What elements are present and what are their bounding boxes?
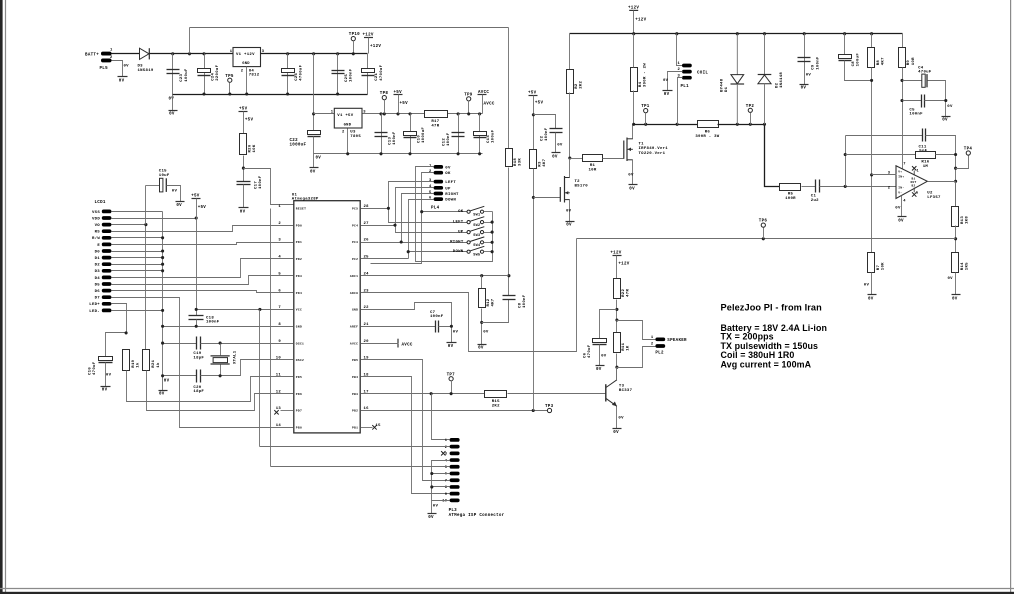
- svg-text:AREF: AREF: [350, 325, 358, 328]
- svg-text:0V: 0V: [801, 87, 807, 91]
- switch SW4 RIGHT: [467, 241, 470, 244]
- sheet border left: [0, 0, 3, 594]
- svg-text:0V: 0V: [948, 277, 954, 281]
- junction VO C15: [144, 223, 147, 226]
- wire MCU pin7 VCC: [197, 309, 294, 311]
- connector PL1 COIL: [682, 64, 692, 68]
- svg-text:D7: D7: [95, 297, 101, 301]
- svg-text:PL5: PL5: [100, 67, 109, 71]
- power symbol +12V: [364, 37, 373, 39]
- svg-text:SW5: SW5: [473, 254, 480, 258]
- wire C16 bottom: [105, 363, 107, 387]
- svg-text:C7: C7: [430, 311, 436, 315]
- junction +12V sym tx: [632, 32, 635, 35]
- junction reset node: [242, 167, 245, 170]
- svg-text:33K: 33K: [519, 158, 523, 166]
- wire C2 gnd: [555, 133, 557, 153]
- svg-text:V1 +5V: V1 +5V: [337, 114, 353, 118]
- svg-text:4700uF: 4700uF: [300, 64, 304, 80]
- svg-text:4K7: 4K7: [543, 158, 547, 166]
- junction crystal top: [219, 342, 222, 345]
- junction coil feed: [675, 32, 678, 35]
- wire LCD D6 to MCU pin6: [112, 291, 294, 293]
- wire C18 bottom stub: [196, 320, 198, 327]
- transistor T1 IRF840: [623, 141, 625, 159]
- svg-text:C8: C8: [519, 302, 523, 308]
- wire opamp in+ link: [872, 174, 897, 176]
- svg-text:1: 1: [230, 50, 233, 54]
- svg-text:18pF: 18pF: [193, 357, 204, 361]
- svg-text:0V: 0V: [119, 79, 125, 83]
- op-amp U2 LF357: [896, 166, 927, 199]
- svg-text:TP8: TP8: [380, 92, 389, 96]
- wire ISP pin2 VCC: [260, 446, 450, 448]
- junction 0V bus LEFT: [491, 221, 494, 224]
- junction C26: [286, 52, 289, 55]
- svg-text:R5: R5: [788, 193, 794, 197]
- junction TP10: [352, 52, 355, 55]
- junction rail U4: [245, 92, 248, 95]
- ground ISP: [428, 513, 437, 515]
- ground R14: [952, 294, 961, 296]
- svg-text:0V: 0V: [952, 297, 958, 301]
- wire R1 left: [570, 158, 583, 160]
- svg-text:OSC1: OSC1: [296, 342, 304, 345]
- svg-text:PB5: PB5: [352, 359, 358, 362]
- svg-text:AVCC: AVCC: [402, 343, 413, 347]
- wire +12V audio drop: [616, 256, 618, 279]
- svg-text:0V: 0V: [169, 98, 175, 102]
- wire R3 to TX drive: [533, 169, 535, 411]
- wire TP9 stub: [468, 101, 470, 114]
- svg-text:OK: OK: [458, 210, 464, 214]
- svg-text:GND: GND: [344, 124, 352, 128]
- junction R16 out: [954, 153, 957, 156]
- svg-text:100uF: 100uF: [185, 68, 189, 82]
- wire PL5 pin1 to D3: [112, 53, 140, 55]
- svg-text:7805: 7805: [350, 135, 361, 139]
- junction C18 pin8: [195, 325, 198, 328]
- svg-text:390R - 2W: 390R - 2W: [644, 63, 648, 87]
- wire R18 bottom: [508, 168, 510, 296]
- svg-text:100nF: 100nF: [350, 68, 354, 82]
- svg-text:D0: D0: [95, 250, 101, 254]
- junction U3 input: [312, 112, 315, 115]
- svg-text:DOWN: DOWN: [453, 250, 464, 254]
- ground T3: [613, 428, 622, 430]
- ground PL5: [118, 76, 128, 78]
- wire coil feed: [677, 34, 683, 66]
- svg-text:R1: R1: [590, 164, 596, 168]
- svg-text:2: 2: [110, 56, 113, 60]
- wire OK extension: [371, 212, 422, 264]
- svg-text:+12V: +12V: [635, 18, 646, 22]
- wire C8a top: [844, 34, 846, 55]
- ground 7805 rail: [310, 167, 319, 169]
- wire T2 gate link: [534, 197, 561, 199]
- svg-text:C10: C10: [418, 135, 422, 143]
- svg-text:0V: 0V: [628, 174, 634, 178]
- svg-text:0V: 0V: [433, 505, 439, 509]
- svg-text:C21: C21: [375, 72, 379, 80]
- svg-text:R9: R9: [907, 60, 911, 66]
- svg-text:BATT+: BATT+: [85, 53, 99, 57]
- svg-text:100R: 100R: [785, 197, 796, 201]
- svg-text:0V: 0V: [124, 65, 130, 69]
- svg-text:0V: 0V: [942, 119, 948, 123]
- sheet border right: [1010, 0, 1012, 594]
- wire rail ground drop: [172, 95, 174, 111]
- wire T3 emitter: [616, 407, 618, 429]
- power symbol +12V audio: [613, 255, 622, 257]
- svg-text:9: 9: [445, 493, 448, 497]
- resistor R4 390R 2W: [631, 68, 638, 92]
- svg-text:PC2: PC2: [352, 258, 358, 261]
- capacitor C19 18pF: [196, 337, 198, 350]
- junction rail C25: [336, 92, 339, 95]
- junction rail U3 gnd: [346, 152, 349, 155]
- svg-text:4700uF: 4700uF: [380, 64, 384, 80]
- resistor R8 4K7: [868, 48, 875, 68]
- wire PL4 DOWN to switch: [409, 200, 468, 252]
- junction pin26: [400, 240, 403, 243]
- svg-text:100nF: 100nF: [545, 127, 549, 141]
- wire C6 gnd: [599, 345, 601, 366]
- svg-text:C23: C23: [180, 73, 184, 81]
- regulator U4 7812: [233, 48, 261, 67]
- svg-text:LCD1: LCD1: [95, 201, 106, 205]
- wire reset vertical: [270, 209, 272, 467]
- resistor R17 47R: [425, 111, 448, 118]
- svg-text:D2: D2: [776, 82, 780, 88]
- svg-text:R17: R17: [431, 120, 439, 124]
- svg-text:UP: UP: [458, 230, 464, 234]
- ground coil shield: [663, 90, 673, 92]
- resistor R6 390R 3W: [698, 121, 719, 128]
- junction R8 top: [870, 32, 873, 35]
- wire R4 bottom: [633, 91, 635, 125]
- svg-text:7812: 7812: [249, 74, 260, 78]
- svg-text:V-: V-: [898, 192, 902, 195]
- wire MCU pin20 avcc: [361, 343, 399, 345]
- switch SW3 UP: [467, 231, 470, 234]
- svg-text:PD2: PD2: [296, 258, 302, 261]
- wire TP2 stub: [750, 113, 752, 125]
- svg-text:R18: R18: [514, 158, 518, 166]
- svg-text:1K5: 1K5: [965, 262, 969, 270]
- svg-text:TP10: TP10: [349, 33, 360, 37]
- power symbol AVCC pin20: [397, 339, 399, 348]
- svg-text:0V: 0V: [164, 380, 170, 384]
- no-connect ISP pin3: [441, 451, 445, 455]
- svg-text:R11: R11: [622, 342, 626, 350]
- svg-text:100nF: 100nF: [523, 294, 527, 308]
- wire C15 right: [167, 186, 181, 202]
- capacitor C22 1000uF: [308, 131, 321, 135]
- svg-text:100nF: 100nF: [430, 315, 444, 319]
- wire SW1 to 0V bus: [484, 211, 493, 213]
- wire +12V symbol drop: [368, 38, 370, 54]
- svg-text:DOWN: DOWN: [445, 199, 456, 203]
- svg-text:100nF: 100nF: [909, 113, 923, 117]
- svg-text:C6: C6: [584, 352, 588, 358]
- wire pin13 stub: [281, 410, 294, 412]
- svg-text:RESET: RESET: [296, 208, 306, 211]
- ground C15: [176, 201, 185, 203]
- svg-text:BS170: BS170: [575, 184, 589, 188]
- svg-text:+5V: +5V: [239, 107, 248, 111]
- wire LCD D2: [112, 264, 163, 266]
- wire VO line to R21: [145, 225, 147, 350]
- svg-text:R21: R21: [152, 359, 156, 367]
- wire R8 bottom long: [871, 68, 873, 253]
- wire MCU pin22 gnd: [361, 303, 452, 327]
- svg-text:10K: 10K: [253, 144, 257, 152]
- svg-text:470uF: 470uF: [918, 71, 932, 75]
- junction D1 bottom: [736, 123, 739, 126]
- junction R12 top: [480, 274, 483, 277]
- junction TP9: [467, 112, 470, 115]
- diode D3 1N5819: [140, 48, 150, 59]
- junction TP7: [450, 392, 453, 395]
- junction R16 left: [844, 153, 847, 156]
- junction C7 gnd: [450, 325, 453, 328]
- svg-text:B2: B2: [912, 185, 916, 188]
- wire +5V t2 drop: [533, 96, 535, 150]
- svg-text:0V: 0V: [613, 431, 619, 435]
- wire R8 top: [871, 34, 873, 48]
- capacitor C14 100uF: [474, 132, 487, 136]
- svg-text:4K7: 4K7: [492, 298, 496, 306]
- svg-text:PL2: PL2: [655, 352, 664, 356]
- svg-text:PC3: PC3: [352, 241, 358, 244]
- svg-text:LEFT: LEFT: [445, 181, 456, 185]
- wire LCD VSS: [112, 211, 163, 213]
- junction collector node: [615, 366, 618, 369]
- wire TP4 link: [956, 156, 969, 169]
- svg-text:1N4148: 1N4148: [780, 72, 784, 88]
- wire LCD D3: [112, 270, 163, 272]
- svg-text:PB1: PB1: [352, 427, 358, 430]
- capacitor C10 1000uF: [404, 132, 417, 136]
- connector PL4: [434, 165, 444, 169]
- svg-text:0V: 0V: [566, 210, 572, 214]
- junction coil pin3: [676, 123, 679, 126]
- wire R12 bottom: [481, 309, 483, 345]
- svg-text:0V: 0V: [483, 331, 489, 335]
- wire MCU pin8 GND: [163, 326, 294, 328]
- wire TP7 stub: [451, 381, 453, 394]
- svg-text:C20: C20: [193, 386, 201, 390]
- resistor R18 33K: [506, 149, 513, 167]
- junction VDD +5V: [195, 216, 198, 219]
- wire R9 bottom to opamp V+: [902, 68, 904, 169]
- junction +5V pin7: [195, 308, 198, 311]
- junction C24 top: [202, 52, 205, 55]
- capacitor C7 100nF: [435, 321, 437, 333]
- wire T2 source: [569, 200, 571, 222]
- resistor R13 1K8: [952, 207, 959, 227]
- wire C23 leads: [172, 54, 174, 95]
- wire R14 gnd: [955, 273, 957, 295]
- svg-text:0V: 0V: [663, 79, 669, 83]
- svg-text:PB2: PB2: [352, 410, 358, 413]
- svg-text:D1: D1: [725, 86, 729, 92]
- transistor T3 BC337: [605, 384, 607, 401]
- svg-text:19: 19: [364, 357, 370, 361]
- ground C17: [239, 207, 249, 209]
- svg-text:R22: R22: [622, 289, 626, 297]
- wire C21 leads: [367, 54, 369, 95]
- svg-text:R2: R2: [575, 83, 579, 89]
- junction +5V sym: [396, 112, 399, 115]
- test point TP10: [351, 37, 355, 41]
- junction TP2: [749, 123, 752, 126]
- wire ISP VCC drop: [259, 310, 261, 447]
- svg-text:3: 3: [429, 179, 432, 183]
- junction TP8: [383, 112, 386, 115]
- wire R7 gnd: [871, 273, 873, 295]
- svg-text:RIGHT: RIGHT: [445, 193, 459, 197]
- wire MCU pin27 to UP line: [361, 225, 396, 227]
- junction bus pin8: [161, 325, 164, 328]
- svg-text:D2: D2: [95, 264, 101, 268]
- junction C16 R19: [125, 331, 128, 334]
- junction bus D3: [161, 269, 164, 272]
- wire opamp pin4 gnd: [901, 196, 903, 217]
- svg-text:1N5819: 1N5819: [138, 69, 154, 73]
- junction crystal bottom: [219, 374, 222, 377]
- junction OK row: [420, 210, 423, 213]
- wire R21 to MCU pin12: [147, 371, 294, 411]
- junction bus LED-: [161, 309, 164, 312]
- svg-text:PB0: PB0: [296, 427, 302, 430]
- wire U4 pin3 +12V rail: [261, 53, 368, 55]
- junction 7805 feed: [312, 52, 315, 55]
- svg-text:0V: 0V: [240, 210, 246, 214]
- svg-text:+12V: +12V: [618, 263, 629, 267]
- wire PL5 pin2 to ground: [112, 61, 123, 77]
- svg-text:PC5: PC5: [352, 208, 358, 211]
- crystal XTAL1: [211, 355, 230, 357]
- svg-text:GND: GND: [352, 309, 358, 312]
- svg-text:0V: 0V: [864, 284, 870, 288]
- svg-text:R19: R19: [132, 359, 136, 367]
- svg-text:PD0: PD0: [296, 224, 302, 227]
- svg-text:0V: 0V: [596, 368, 602, 372]
- svg-text:VSS: VSS: [92, 211, 100, 215]
- wire C4 right: [928, 81, 946, 117]
- junction TP1: [644, 123, 647, 126]
- resistor R12 4K7: [479, 289, 486, 308]
- wire C17 to gnd: [243, 185, 245, 208]
- svg-text:5: 5: [916, 192, 918, 196]
- wire +5V output rail: [363, 113, 425, 115]
- svg-text:D4: D4: [95, 277, 101, 281]
- capacitor C15 10uF: [160, 178, 163, 192]
- svg-text:100uF: 100uF: [857, 53, 861, 67]
- test point TP8: [382, 96, 386, 100]
- svg-text:R7: R7: [877, 265, 881, 271]
- wire R5 to C1: [802, 186, 816, 188]
- wire C5 right: [925, 100, 946, 102]
- transistor T2 BS170: [559, 187, 561, 202]
- svg-text:LF357: LF357: [927, 196, 941, 200]
- svg-text:+5V: +5V: [394, 91, 403, 95]
- svg-text:D6: D6: [95, 290, 101, 294]
- junction bus D0: [161, 249, 164, 252]
- ground R12: [478, 344, 487, 346]
- capacitor C8a 100uF: [839, 55, 852, 59]
- svg-text:PD4: PD4: [296, 292, 302, 295]
- svg-text:3: 3: [363, 111, 366, 115]
- resistor R15 2K2: [485, 391, 507, 398]
- svg-text:1k: 1k: [136, 362, 141, 368]
- power symbol +12V tx: [629, 9, 638, 11]
- junction rail C10: [408, 152, 411, 155]
- svg-text:R20: R20: [249, 144, 253, 152]
- junction ISP MOSI: [430, 392, 433, 395]
- wire gnd bus: [162, 212, 164, 391]
- svg-text:XTAL1: XTAL1: [234, 350, 238, 364]
- svg-text:0V: 0V: [448, 345, 454, 349]
- junction rail C12: [457, 152, 460, 155]
- test point TP1: [644, 109, 648, 113]
- wire C10 leads: [410, 114, 412, 154]
- svg-text:100uF: 100uF: [492, 129, 496, 143]
- wire coil pin3 down: [678, 78, 683, 125]
- wire MCU pin19 SCK: [361, 360, 450, 481]
- power symbol +5V reg: [394, 94, 403, 96]
- capacitor C21 4700uF: [362, 69, 375, 73]
- switch SW5 DOWN: [467, 250, 470, 253]
- wire reset to MCU pin1: [244, 169, 296, 205]
- capacitor C16 470uF: [99, 357, 113, 361]
- svg-text:470uF: 470uF: [588, 344, 592, 358]
- diode D1 BY448: [736, 34, 738, 75]
- wire C8 bottom link: [482, 300, 509, 323]
- svg-text:0V: 0V: [898, 219, 904, 223]
- ground C4 C5: [942, 116, 951, 118]
- wire LCD D1: [112, 257, 163, 259]
- svg-text:100nF: 100nF: [816, 56, 820, 70]
- test point TP9: [467, 97, 471, 101]
- junction C13: [379, 112, 382, 115]
- wire PL4 RIGHT to switch: [402, 194, 468, 243]
- svg-text:0V: 0V: [453, 330, 459, 334]
- junction bus R/W: [161, 236, 164, 239]
- svg-text:V1 +12V: V1 +12V: [236, 53, 255, 57]
- wire C5 left: [903, 100, 922, 102]
- svg-text:OK: OK: [445, 172, 451, 176]
- wire R5 feed: [779, 186, 781, 188]
- svg-text:V+: V+: [898, 171, 902, 174]
- wire crystal bottom stub: [220, 365, 222, 376]
- svg-text:2: 2: [888, 186, 891, 190]
- svg-text:TP1: TP1: [641, 105, 650, 109]
- test point TP6: [761, 223, 765, 227]
- junction C5: [900, 99, 903, 102]
- svg-text:0V: 0V: [102, 389, 108, 393]
- svg-text:C13: C13: [389, 137, 393, 145]
- switch SW2 LEFT: [467, 221, 470, 224]
- svg-text:ATMega ISP Connector: ATMega ISP Connector: [449, 514, 505, 518]
- junction opamp out: [954, 180, 957, 183]
- mcu U1 ATmega328P box: [294, 201, 360, 433]
- svg-text:2: 2: [651, 343, 654, 347]
- wire D3 to U4 pin1: [150, 53, 234, 55]
- svg-text:0V: 0V: [629, 187, 635, 191]
